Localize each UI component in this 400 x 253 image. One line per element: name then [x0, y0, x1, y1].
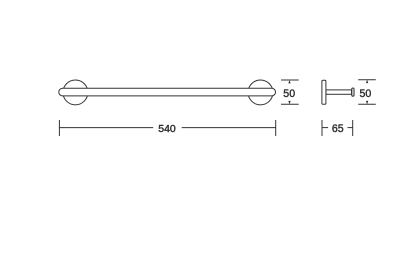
dimension 540: right tick [275, 120, 277, 136]
dimension 50 front: top arrowhead [288, 80, 290, 83]
dimension 540: line left segment [59, 127, 153, 129]
svg-text:540: 540 [158, 123, 176, 135]
dimension 50 front: bottom arrowhead [288, 101, 290, 104]
dimension 50 side: top arrowhead [366, 80, 368, 83]
dimension 50 side: bottom extension line [358, 103, 376, 105]
dimension 65: left tick [321, 120, 323, 136]
towel bar front view [59, 88, 276, 96]
side view wall plate [322, 80, 326, 104]
svg-text:50: 50 [360, 88, 372, 100]
side view bar end cap [352, 88, 354, 96]
dimension 50 front: bottom extension line [281, 103, 299, 105]
svg-text:65: 65 [332, 123, 344, 135]
right rosette circle [248, 80, 273, 105]
left rosette circle [63, 80, 88, 105]
dimension 65: right tick [352, 120, 354, 136]
dimension 65: line left segment [322, 127, 328, 129]
dimension 50 side: top extension line [358, 79, 376, 81]
dimension 50 front: top extension line [281, 79, 299, 81]
dimension 65: line right segment [348, 127, 353, 129]
dimension 540: left tick [58, 120, 60, 136]
dimension 540: line right segment [182, 127, 276, 129]
side view arm [326, 90, 352, 94]
svg-text:50: 50 [283, 88, 295, 100]
dimension 50 side: bottom arrowhead [366, 101, 368, 104]
